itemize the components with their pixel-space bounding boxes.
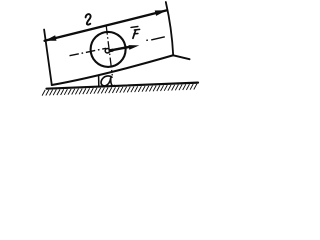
- board left edge with extension tick: [44, 30, 52, 86]
- force arrow F shaft: [110, 47, 132, 51]
- dimension arrowhead right: [155, 10, 167, 16]
- hub (axle circle): [105, 49, 109, 53]
- horizontal centerline (dash-dot), left of force arrow: [70, 48, 107, 55]
- board bottom edge (rests on ground, slight hand-drawn sag): [52, 55, 173, 85]
- dimension arrowhead left: [45, 35, 57, 41]
- horizontal centerline (dash-dot), right of force arrow: dot then dash: [146, 37, 165, 41]
- board right edge with extension tick: [166, 2, 173, 55]
- cylinder (big circle): [91, 32, 126, 67]
- board top edge doubling as dimension line for length l: [45, 10, 167, 41]
- label F with bar: [131, 27, 140, 39]
- incline overhang segment beyond bottom-right corner: [173, 55, 189, 59]
- alpha angle tick (vertical): [98, 75, 100, 87]
- vertical centerline (dash-dot): [106, 25, 112, 76]
- label alpha: [101, 76, 114, 86]
- force arrow F head: [129, 45, 140, 50]
- ground hatching: [42, 84, 197, 96]
- label l (script ell): [86, 14, 91, 25]
- force arrow shaft butt (ink blob at hub): [109, 49, 113, 53]
- ground line: [47, 83, 199, 89]
